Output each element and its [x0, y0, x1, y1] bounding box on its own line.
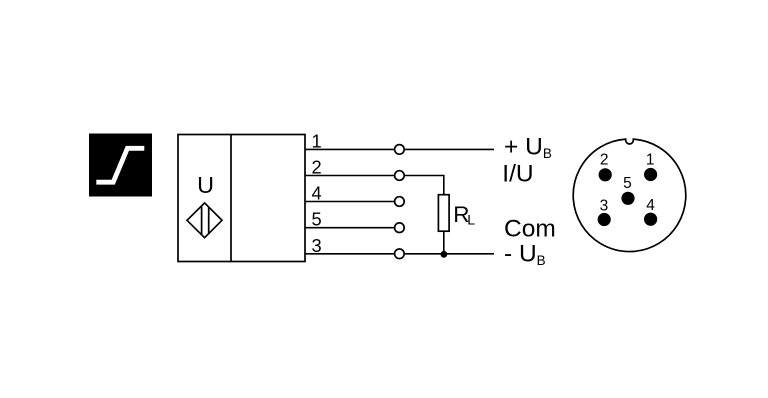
resistor RL	[438, 195, 449, 232]
connector pin 1 dot	[644, 168, 657, 181]
wire pin 1	[305, 148, 494, 150]
svg-text:L: L	[467, 212, 475, 228]
sensor proximity symbol	[187, 203, 222, 238]
sensor divider	[230, 135, 232, 262]
svg-text:3: 3	[600, 198, 609, 215]
output characteristic icon	[89, 134, 152, 197]
connector M12 outline with keying notch	[573, 139, 686, 251]
svg-text:1: 1	[646, 152, 655, 169]
svg-text:U: U	[197, 172, 214, 198]
svg-text:3: 3	[312, 235, 322, 256]
wire resistor to node	[443, 231, 445, 254]
connector pin 4 dot	[644, 213, 657, 226]
svg-text:2: 2	[312, 157, 322, 178]
wire pin 5	[305, 227, 394, 229]
svg-text:4: 4	[646, 197, 655, 214]
terminal circle pin 4	[395, 197, 405, 207]
wire pin 3	[305, 253, 494, 255]
terminal circle pin 1	[395, 145, 405, 155]
svg-text:I/U: I/U	[502, 160, 533, 187]
connector pin 3 dot	[598, 213, 611, 226]
svg-text:2: 2	[600, 152, 609, 169]
terminal circle pin 3	[395, 249, 405, 259]
sensor body	[178, 135, 305, 262]
wire pin 4	[305, 201, 394, 203]
svg-text:1: 1	[312, 130, 322, 151]
svg-text:4: 4	[312, 183, 322, 204]
terminal circle pin 5	[395, 223, 405, 233]
wire pin 2	[305, 176, 444, 196]
terminal circle pin 2	[395, 171, 405, 181]
connector pin 5 dot	[621, 192, 634, 205]
svg-text:Com: Com	[504, 215, 556, 242]
connector pin 2 dot	[599, 168, 612, 181]
junction node	[441, 251, 448, 258]
svg-text:5: 5	[312, 209, 322, 230]
svg-text:5: 5	[623, 175, 632, 192]
